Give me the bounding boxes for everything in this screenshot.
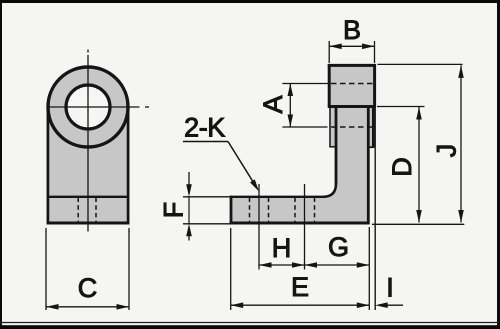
side view boss top edge [328,64,376,67]
frame rule above bottom border [0,322,500,324]
front view vertical centerline [87,50,89,232]
side view bore hidden top edge [331,83,373,85]
dimension C extension lines [46,228,129,310]
dimension I extension line from boss corner [374,108,376,310]
front view base top edge [47,196,129,198]
dimension F extension lines [183,197,231,224]
front view horizontal centerline [47,106,150,108]
side view boss bottom joint line [328,105,376,108]
dimension F line and arrows [186,172,192,241]
frame border left [0,0,2,329]
dimension D line [416,107,422,223]
shared bottom extension line for D and J [372,223,464,225]
svg-text:C: C [78,273,98,303]
side view mounting hole 2 hidden edges [295,198,315,223]
front view body fill [48,67,128,223]
svg-text:F: F [159,202,189,219]
side view boss fill [329,65,374,147]
dimension B line [329,44,374,50]
side view boss right edge [373,64,376,107]
dimension F label [159,202,189,219]
side view L-shape fill [231,107,368,224]
side view leg left edge [335,107,338,185]
front view base bottom edge [47,221,130,224]
dimension B extension lines [329,41,374,63]
side view boss lower-left silhouette [329,107,331,147]
front view left side edge [47,107,50,224]
dimension J line [458,65,464,222]
svg-text:G: G [328,232,349,262]
side view leg right edge [367,107,370,225]
front view bore fill [66,85,110,129]
dimension G line [305,262,370,268]
svg-text:H: H [272,233,292,263]
svg-text:E: E [291,272,309,302]
side view hole 2 centerline / HG extension [304,184,306,270]
dimension H line [259,262,305,268]
frame border bottom [0,325,500,329]
side view boss bottom-left step [329,146,336,148]
dimension E line [231,302,370,308]
dimension D label [387,157,417,177]
front view right side edge [127,107,130,224]
side view boss left edge [328,64,331,107]
svg-text:B: B [343,15,361,45]
dimension I arrow [375,302,403,308]
dimension A label [258,95,288,113]
dimension J extension line [378,63,463,65]
svg-text:J: J [431,144,461,158]
frame border top [0,0,500,3]
dimension A line [288,84,294,128]
dimension D extension line [377,106,425,108]
front view outer circle [48,67,128,147]
side view mounting hole 1 hidden edges [250,198,269,223]
side view hole 1 centerline / H extension [258,184,260,270]
svg-text:A: A [258,95,288,113]
side view base left edge [230,196,233,225]
side view boss bottom-right step [368,146,374,148]
front view hidden hole edge right [95,198,97,223]
frame border right [497,0,500,329]
side view base top edge [231,196,324,198]
side view boss lower-right silhouette [372,107,375,148]
svg-text:I: I [386,273,394,303]
dimension J label [431,144,461,158]
side view bore hidden bottom edge [331,126,373,128]
side view base bottom edge [230,221,370,224]
dimension A extension lines [282,84,330,128]
svg-text:D: D [387,157,417,177]
front view inner circle [66,85,110,129]
dimension E extension lines [231,227,370,310]
front view hidden hole edge left [77,198,79,223]
leader line for 2-K [183,142,259,192]
svg-text:2-K: 2-K [184,113,225,143]
dimension C line [46,304,129,310]
side view inner fillet [323,184,336,197]
